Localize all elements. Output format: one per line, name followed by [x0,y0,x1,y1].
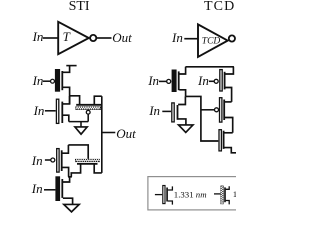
wire M5' drain from M4' [224,132,233,134]
wire M3' source to VDD rail [225,67,233,74]
nmos M5 hatched gate bar [75,159,100,162]
pmos M3 channel (horizontal) [76,104,101,106]
legend symbol thin-oxide: gate lead [155,194,162,196]
wire M3 gate down to ground wire [87,114,89,122]
wire node X to M3 left terminal [70,96,80,105]
pmos M3' channel [224,72,226,90]
pmos M1 gate bubble [51,79,55,83]
wire In to M6 gate [44,189,55,191]
inverter U2 output bubble [229,35,235,41]
wire In to M2' gate [162,110,171,112]
svg-text:TCD: TCD [204,0,235,14]
wire M5 left terminal down [71,164,80,177]
nmos M2' gate bar (hollow) [172,103,174,122]
legend symbol thin-oxide: channel [166,188,168,202]
svg-text:1.9: 1.9 [233,189,236,199]
wire node Y horizontal [68,176,72,178]
wire feedback node to M5 gate [68,145,88,159]
pmos M3 gate bubble [86,110,90,114]
svg-text:Out: Out [112,30,132,45]
wire Out rail [101,96,103,173]
wire M6 source to ground 2 [63,198,73,204]
legend symbol mid-oxide: source hook [226,201,230,205]
svg-text:TCD: TCD [202,37,221,47]
wire M1 drain to node X [63,87,70,104]
op-amp U2 TCD inverter triangle [198,24,228,57]
legend symbol mid-oxide: drain hook [226,186,230,189]
svg-text:In: In [33,103,45,118]
svg-text:In: In [31,181,43,196]
wire M2 source down [63,115,69,121]
wire node X' branch to M4' bubble [201,109,215,111]
svg-text:In: In [197,73,209,88]
pmos M1 channel [61,71,63,90]
legend box [148,177,243,210]
wire down to ground 1 [80,122,82,127]
wire M4' drain down to M5' [225,118,233,133]
nmos M6 thick gate bar (filled) [55,176,60,201]
svg-text:In: In [171,30,183,45]
wire M6 drain up to node Y [63,177,70,182]
pmos M4 gate bar (hollow) [57,149,59,173]
wire M4 source down [62,167,68,176]
svg-text:In: In [32,29,44,44]
wire M5 right terminal to rail [94,164,102,173]
wire In to M2 gate [45,110,56,112]
legend symbol thin-oxide: drain hook [168,186,173,190]
pmos M1' channel [178,71,180,90]
pmos M3 hatched gate bar [75,106,101,109]
pmos M4' gate bubble [215,108,219,112]
legend symbol thin-oxide: gate bar (hollow) [163,186,165,204]
nmos M2' channel [177,105,179,120]
wire M2' drain to node X' [178,96,185,104]
wire In to M1' bubble [159,80,167,82]
svg-text:In: In [31,153,43,168]
legend symbol mid-oxide: channel [224,187,226,202]
wire M2' source down to ground 3 [178,119,186,125]
ground 2 [64,204,79,212]
wire In to M3' bubble [209,80,214,82]
nmos M6 channel [61,179,63,198]
svg-text:STI: STI [69,0,90,14]
wire M4' source from M3' [225,101,232,103]
pmos M4 channel [61,150,63,171]
pmos M3' gate bar (hollow) [220,70,222,91]
wire In to TCD inverter [184,38,198,40]
wire M4 drain up to feedback wire [62,145,68,153]
wire M1' drain to node X' [179,90,185,97]
pmos M1' thick gate bar (filled) [172,70,177,93]
wire ground node horizontal [69,121,88,123]
svg-text:In: In [148,103,160,118]
svg-text:1.331 nm: 1.331 nm [174,189,207,199]
op-amp U1 STI inverter triangle [58,22,89,54]
pmos M4' gate bar (hollow) [220,98,222,122]
nmos M2 gate bar (hollow) [56,99,58,123]
pmos M4 gate bubble [51,158,55,162]
legend symbol thin-oxide: source hook [168,201,173,205]
wire U1 bubble to Out [96,37,111,39]
ground 3 [179,125,194,132]
wire In to M1 bubble [43,80,51,82]
wire M3 right terminal to Out rail [94,96,102,104]
wire M3' drain down to M4' [225,88,231,102]
nmos M2 channel [61,102,63,123]
pmos M4' channel [223,100,225,121]
wire In to M4 bubble [45,159,51,161]
wire rail to Out label [102,132,116,134]
legend symbol mid-oxide: gate lead [214,193,220,195]
ground 1 [75,127,87,134]
pmos M1' gate bubble [167,79,171,83]
legend symbol mid-oxide: hatched gate bar [221,186,224,205]
svg-text:Out: Out [116,126,136,141]
nmos M5 channel (horizontal) [77,163,98,165]
nmos M5' channel [223,131,225,149]
wire In to STI inverter [43,37,58,39]
wire M1 source to VDD [63,66,70,72]
nmos M5' gate bar (hollow) [219,130,221,151]
power VDD rail TCD [186,66,234,68]
svg-text:In: In [147,73,159,88]
wire M5' source exit right [224,148,236,153]
svg-text:T: T [63,29,71,44]
pmos M3' gate bubble [214,79,218,83]
inverter U1 output bubble [90,35,96,41]
svg-text:In: In [32,73,44,88]
wire node X' to feedback gates [186,96,219,141]
wire M2 drain to node X [63,96,70,104]
power VDD stub [66,65,76,67]
pmos M1 thick gate bar (filled) [55,69,60,92]
wire M1' source to VDD rail [179,67,185,74]
